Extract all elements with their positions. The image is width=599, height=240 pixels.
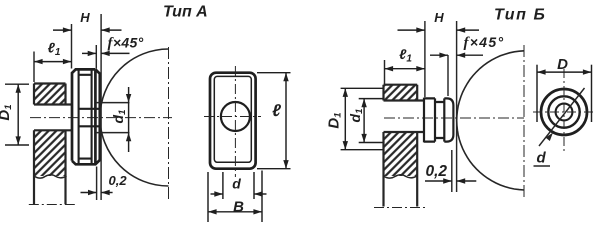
knob hole edges A (96, 103, 130, 133)
block outline B (384, 85, 418, 207)
crosshair vertical (563, 69, 565, 152)
dimension l (middle) (257, 73, 291, 169)
left face extension A (71, 24, 73, 69)
face extension above A (95, 45, 97, 69)
crosshair horizontal (533, 111, 596, 113)
dimension f x45 (A) (82, 51, 130, 56)
dimension D1 (A) (5, 84, 29, 145)
block hatch lower B (384, 132, 418, 176)
block left extension A (33, 52, 35, 83)
block hatch upper B (384, 85, 418, 101)
dimension d1 (B) (359, 99, 383, 143)
svg-text:0,2: 0,2 (109, 173, 128, 188)
block left extension B (384, 60, 386, 84)
tangent extension line A (100, 14, 102, 200)
block hatch lower (34, 130, 66, 176)
front view inner rect (214, 76, 251, 162)
shaft edges (34, 105, 72, 131)
svg-text:D: D (557, 56, 568, 73)
circle inner (556, 104, 573, 121)
svg-text:B: B (233, 199, 244, 216)
front view outer rect (210, 73, 256, 169)
part A inner recess (79, 70, 92, 164)
svg-text:D1: D1 (0, 104, 14, 120)
svg-text:H: H (80, 10, 90, 25)
knob sphere B (457, 51, 524, 190)
front view horizontal centerline (204, 116, 261, 118)
part A hole edges (79, 109, 100, 127)
svg-text:f×45°: f×45° (464, 34, 505, 51)
dimension 0,2 (B) (425, 178, 476, 183)
svg-text:H: H (434, 10, 444, 25)
dimension f x45 (B) (430, 53, 483, 58)
leader shelf for d (circles view) (534, 165, 551, 167)
svg-text:ℓ: ℓ (272, 101, 281, 120)
svg-text:0,2: 0,2 (426, 163, 448, 180)
main centerline A (30, 117, 172, 119)
face extension below A (96, 167, 98, 201)
svg-text:Тип Б: Тип Б (494, 7, 546, 24)
block hatch upper (34, 84, 66, 105)
part B spool profile (424, 98, 453, 143)
front view vertical centerline (234, 66, 236, 177)
sphere B cut centerline (523, 45, 525, 200)
dimension B (middle) (208, 171, 262, 223)
shaft edges B (384, 101, 425, 133)
main centerline B (384, 117, 524, 119)
face extension 0,2 (B) (451, 150, 453, 192)
part A outer profile (72, 69, 100, 164)
knob sphere A (100, 49, 169, 186)
block bottom axis dash-dot (29, 204, 76, 206)
sphere A cut centerline (168, 47, 170, 202)
svg-text:d: d (537, 150, 547, 167)
circle middle (548, 96, 579, 127)
dimension l1 (A) (34, 59, 72, 64)
dimension 0,2 (A) (81, 190, 113, 195)
diagonal chord with leader arrow (539, 88, 585, 146)
block bottom axis dash-dot B (374, 207, 428, 209)
block outline (34, 84, 66, 205)
dimension d1 (A) (126, 87, 131, 152)
block break line B (384, 175, 417, 178)
dimension D (circles view) (537, 65, 592, 122)
dimension D1 (B) (341, 88, 383, 149)
dimension d (middle) (211, 172, 267, 199)
tangent extension line B (456, 21, 458, 192)
dimension H (B) (398, 27, 480, 32)
face extension f (B) (447, 55, 449, 96)
part left face extension B (424, 21, 426, 97)
dimension H (A) (53, 27, 122, 32)
front view hole circle (221, 102, 250, 131)
dimension l1 (B) (385, 66, 425, 71)
block break line (34, 175, 67, 178)
circle outer (541, 89, 587, 135)
svg-text:f×45°: f×45° (108, 35, 144, 52)
svg-text:d: d (232, 176, 241, 192)
svg-text:Тип А: Тип А (163, 4, 208, 21)
